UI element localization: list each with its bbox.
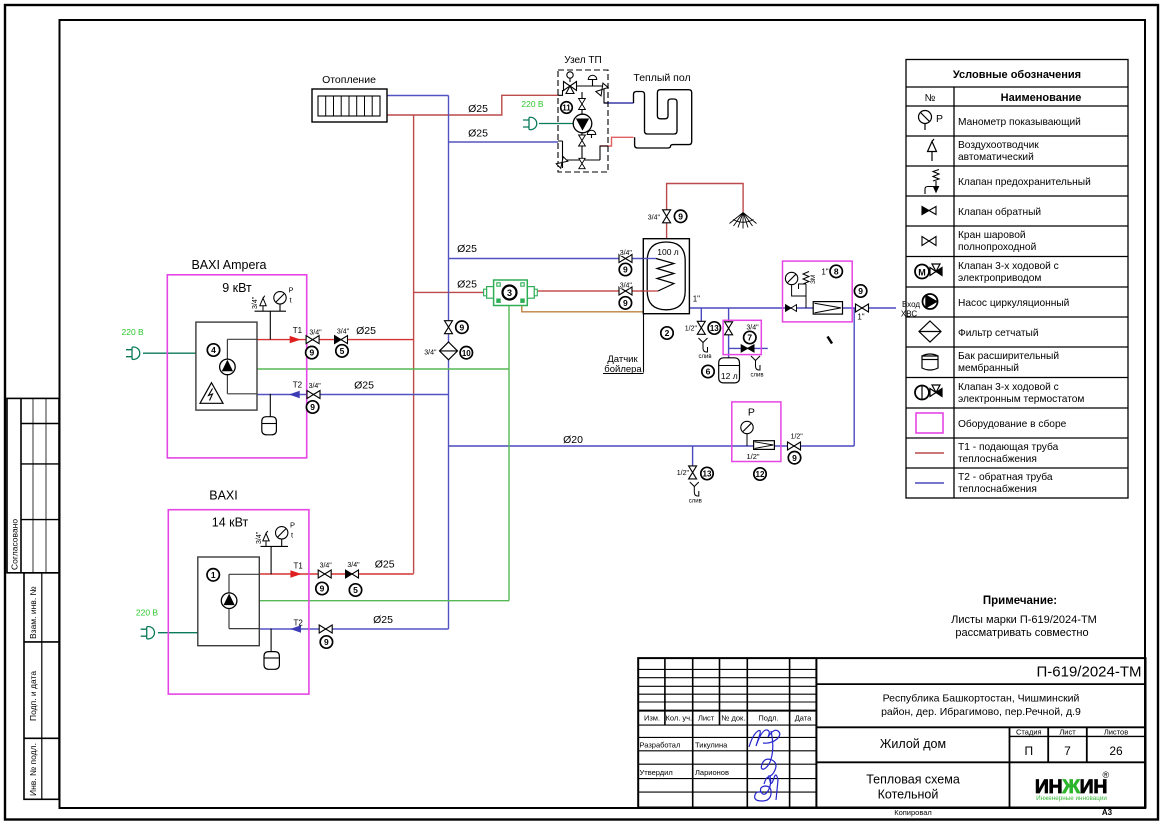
svg-text:слив: слив [698, 354, 711, 360]
svg-text:Стадия: Стадия [1016, 727, 1042, 736]
svg-text:Вход: Вход [902, 300, 920, 309]
svg-text:слив: слив [750, 372, 763, 378]
svg-text:1/2": 1/2" [685, 325, 698, 332]
title block grid [638, 658, 1145, 807]
stray tick mark [828, 337, 833, 344]
wire T2 main blue riser [448, 96, 450, 630]
circled 6 [702, 365, 714, 377]
svg-text:Условные обозначения: Условные обозначения [953, 69, 1081, 81]
svg-text:Ø25: Ø25 [356, 325, 376, 337]
svg-text:Насос циркуляционный: Насос циркуляционный [958, 298, 1069, 309]
wire blue drop to box7 [728, 308, 730, 358]
svg-text:район, дер. Ибрагимово, пер.Ре: район, дер. Ибрагимово, пер.Речной, д.9 [881, 706, 1081, 718]
separator circled 3 [503, 286, 517, 300]
drain symbol lower [690, 482, 699, 496]
svg-text:Фильтр сетчатый: Фильтр сетчатый [958, 328, 1039, 339]
svg-text:Бак расширительный: Бак расширительный [958, 351, 1059, 362]
svg-text:Р: Р [289, 286, 294, 295]
svg-text:Кол. уч.: Кол. уч. [665, 714, 692, 723]
valve on tank blue feed [619, 255, 632, 263]
wire T1 main red riser [413, 115, 415, 574]
expansion tank 12L [719, 358, 740, 383]
legend sym assembled equipment magenta square [916, 413, 943, 433]
svg-text:ЗМ: ЗМ [810, 275, 817, 284]
wire power boiler2 [158, 632, 198, 634]
boiler2 body [198, 557, 259, 646]
svg-text:2: 2 [665, 328, 670, 338]
svg-text:Взам. инв. №: Взам. инв. № [28, 586, 38, 639]
valve on blue riser [445, 321, 453, 334]
uzel air vent dome mid [587, 130, 596, 134]
svg-text:Наименование: Наименование [1001, 92, 1082, 104]
svg-text:Разработал: Разработал [640, 741, 681, 750]
wire red tank top to sprinkler [667, 184, 744, 239]
boiler2 internal loop [229, 574, 259, 628]
svg-text:Клапан предохранительный: Клапан предохранительный [958, 177, 1091, 188]
box12 pressure reducer [754, 441, 775, 450]
boiler1 circled 4 [207, 344, 219, 356]
boiler1 T2 arrow [289, 391, 300, 398]
svg-text:теплоснабжения: теплоснабжения [958, 483, 1037, 495]
legend table grid [906, 60, 1128, 499]
INZHIN logo [1035, 770, 1110, 802]
boiler1 plug [126, 347, 140, 359]
svg-text:Дата: Дата [795, 714, 812, 723]
svg-text:4: 4 [211, 345, 216, 355]
svg-text:26: 26 [1109, 744, 1123, 758]
svg-text:Лист: Лист [1059, 727, 1076, 736]
wire blue to uzel TP [449, 141, 559, 143]
uzel air vent dome top [588, 75, 597, 79]
boiler1 expansion tank [269, 394, 271, 417]
svg-text:Котельной: Котельной [878, 788, 939, 802]
svg-text:Утвердил: Утвердил [640, 768, 673, 777]
boiler2 T1 ball valve [318, 570, 331, 578]
svg-text:М: М [918, 268, 926, 278]
boiler2 T2 arrow [290, 625, 301, 632]
drain symbol right [751, 356, 760, 370]
svg-text:3/4": 3/4" [252, 296, 259, 309]
svg-text:10: 10 [462, 349, 471, 358]
svg-text:14 кВт: 14 кВт [212, 516, 249, 530]
svg-text:Тепловая схема: Тепловая схема [866, 773, 960, 787]
svg-text:12 л: 12 л [721, 371, 738, 381]
svg-text:Ø25: Ø25 [354, 379, 374, 391]
boiler2 T1 arrow [290, 570, 301, 577]
svg-text:бойлера: бойлера [604, 364, 642, 375]
svg-text:теплоснабжения: теплоснабжения [958, 453, 1037, 465]
box8 check valve [785, 305, 796, 312]
boiler2 expansion tank [270, 629, 272, 652]
side stamp upper table (Согласовано) [7, 398, 59, 572]
wire T1 boiler1 [257, 339, 414, 341]
boiler2 assembly magenta box [168, 510, 309, 694]
box7 valve vertical [725, 322, 733, 335]
svg-text:Ø25: Ø25 [373, 614, 393, 626]
boiler1 body [196, 322, 257, 410]
wire red separator feed [414, 291, 494, 293]
circled 12 [754, 468, 766, 480]
box12 manometer [741, 421, 753, 433]
svg-text:8: 8 [834, 267, 839, 277]
svg-text:Р: Р [290, 521, 295, 530]
stage headers [1016, 727, 1128, 736]
legend sym ball valve [922, 237, 936, 246]
svg-text:5: 5 [353, 585, 358, 595]
uzel valve lower [579, 135, 586, 146]
svg-text:Ø25: Ø25 [457, 243, 477, 255]
legend sym pump [923, 294, 938, 309]
svg-text:12: 12 [756, 470, 765, 479]
svg-text:Подл.: Подл. [758, 714, 778, 723]
svg-text:Теплый пол: Теплый пол [633, 72, 690, 84]
svg-text:3: 3 [507, 288, 512, 298]
svg-text:3/4": 3/4" [320, 563, 333, 570]
boiler2 T2 ball valve [319, 625, 332, 633]
wire T2 boiler1 [257, 394, 449, 396]
svg-text:5: 5 [340, 346, 345, 356]
drain symbol upper [699, 338, 708, 352]
right part lines [816, 683, 1145, 685]
wire green boiler2 [259, 600, 509, 602]
revision header labels [640, 714, 813, 778]
svg-text:3/4": 3/4" [256, 531, 263, 544]
svg-text:Лист: Лист [698, 714, 715, 723]
svg-text:3/4": 3/4" [337, 328, 350, 335]
svg-text:Р: Р [748, 407, 755, 419]
svg-text:11: 11 [562, 104, 571, 113]
svg-text:1": 1" [693, 294, 700, 303]
legend sym strainer [919, 321, 941, 342]
boiler2 pump [221, 593, 237, 609]
boiler1 T1 arrow [290, 336, 301, 343]
svg-text:мембранный: мембранный [958, 362, 1019, 374]
svg-text:Инв. № подл.: Инв. № подл. [28, 743, 38, 796]
boiler1 T1 ball valve [306, 336, 319, 344]
box8 safety valve [799, 272, 810, 297]
svg-text:электронным термостатом: электронным термостатом [958, 394, 1084, 405]
svg-text:Жилой дом: Жилой дом [880, 737, 946, 751]
wire blue HVS vertical [853, 308, 855, 446]
left revision table [638, 669, 816, 792]
svg-text:1": 1" [857, 313, 864, 322]
wire T2 boiler2 [259, 628, 448, 630]
wire orange separator to tank [522, 306, 644, 312]
svg-text:Кран шаровой: Кран шаровой [958, 230, 1026, 241]
svg-text:Согласовано: Согласовано [10, 519, 20, 570]
svg-text:№ док.: № док. [721, 714, 745, 723]
svg-text:1/2": 1/2" [791, 434, 804, 441]
boiler2 gauge assembly [261, 527, 289, 575]
valve 9 right of box12 [788, 442, 801, 450]
tank red stub inside [643, 290, 658, 292]
wire green boiler1 [257, 368, 509, 370]
svg-text:Отопление: Отопление [322, 74, 376, 86]
svg-text:Листы марки П-619/2024-ТМ: Листы марки П-619/2024-ТМ [951, 614, 1097, 626]
svg-text:Воздухоотводчик: Воздухоотводчик [958, 140, 1039, 151]
svg-text:9 кВт: 9 кВт [222, 281, 252, 295]
wire green separator drop [508, 306, 510, 601]
svg-text:Ларионов: Ларионов [695, 768, 729, 777]
svg-text:220 В: 220 В [521, 99, 544, 109]
svg-text:рассматривать совместно: рассматривать совместно [955, 627, 1088, 639]
boiler2 circled 1 [207, 569, 219, 581]
circled 10 [460, 347, 472, 359]
tank blue stub inside [643, 258, 656, 260]
tank circled 2 [661, 327, 673, 339]
legend sym T1 red line [915, 452, 944, 454]
boiler1 assembly magenta box [167, 275, 306, 458]
svg-text:Ø25: Ø25 [375, 558, 395, 570]
drain valve 13 upper [697, 321, 705, 334]
box8 pressure reducer [813, 302, 842, 315]
svg-text:Примечание:: Примечание: [983, 595, 1057, 607]
strainer filter [440, 342, 458, 360]
wire T2 radiator return blue [387, 95, 449, 97]
svg-text:Клапан обратный: Клапан обратный [958, 206, 1041, 218]
drain valve 13 lower [689, 466, 697, 479]
svg-text:Т2: Т2 [294, 618, 304, 627]
svg-text:220 В: 220 В [136, 607, 159, 617]
tank coil [656, 259, 674, 292]
valve 9 at HVS inlet [856, 304, 869, 312]
svg-text:®: ® [1103, 770, 1110, 780]
boiler1 gauge assembly [255, 292, 287, 340]
legend sym expansion tank [922, 354, 938, 370]
uzel bottom valve [579, 158, 585, 168]
svg-text:Клапан 3-х ходовой с: Клапан 3-х ходовой с [958, 261, 1059, 272]
box 7 assembly magenta [723, 320, 761, 354]
uzel circled 11 [561, 102, 573, 114]
boiler1 T2 ball valve [307, 391, 320, 399]
valve on tank top red [663, 210, 671, 223]
svg-text:1/2": 1/2" [677, 470, 690, 477]
svg-text:BAXI Ampera: BAXI Ampera [191, 258, 266, 272]
boiler1 hazard triangle [200, 383, 223, 404]
svg-text:1: 1 [211, 570, 216, 580]
legend sym 3-way motor valve [915, 264, 942, 279]
svg-text:3/4": 3/4" [648, 215, 661, 222]
uzel plug [523, 117, 537, 129]
wire red uzel return [600, 137, 634, 146]
svg-text:100 л: 100 л [657, 247, 679, 257]
svg-text:BAXI: BAXI [209, 489, 238, 503]
warm floor coil [634, 90, 692, 148]
radiator Otoplenie [312, 89, 387, 122]
svg-text:А3: А3 [1102, 808, 1113, 817]
svg-text:П: П [1024, 744, 1033, 758]
svg-text:Ø25: Ø25 [468, 103, 488, 115]
svg-text:Копировал: Копировал [894, 808, 932, 817]
wire blue drop to drain valve 13 [700, 308, 702, 334]
svg-text:7: 7 [747, 333, 752, 343]
svg-text:220 В: 220 В [121, 327, 144, 337]
svg-text:Р: Р [936, 113, 943, 125]
uzel pump [573, 114, 592, 133]
uzel TP dashed box [558, 70, 608, 172]
wire blue box7 branch [729, 347, 768, 349]
sprinkler outlet [730, 213, 757, 229]
svg-text:3/4": 3/4" [746, 324, 759, 331]
svg-text:электроприводом: электроприводом [958, 273, 1041, 284]
wire red tank coil inlet [527, 290, 658, 292]
svg-text:3/4": 3/4" [347, 562, 360, 569]
wire blue tank feed [449, 258, 656, 260]
svg-text:Т1 - подающая труба: Т1 - подающая труба [958, 441, 1059, 453]
svg-text:7: 7 [1064, 744, 1071, 758]
svg-text:6: 6 [706, 367, 711, 377]
legend sym 3-way thermostat valve [915, 385, 942, 400]
boiler1 pump [220, 359, 236, 375]
legend sym check valve [922, 207, 936, 215]
svg-text:Узел ТП: Узел ТП [564, 55, 601, 66]
boiler2 plug [141, 627, 155, 639]
box7 solenoid valve [741, 345, 754, 352]
side stamp lower table [24, 573, 59, 800]
svg-text:Ø25: Ø25 [457, 278, 477, 290]
svg-text:1": 1" [821, 267, 828, 276]
svg-text:слив: слив [689, 498, 702, 504]
svg-text:Оборудование в сборе: Оборудование в сборе [958, 418, 1067, 430]
uzel valve upper [579, 98, 586, 109]
uzel bottom angle valve [556, 157, 568, 169]
uzel balancing valve right [596, 83, 608, 96]
svg-text:Т1: Т1 [293, 326, 303, 335]
uzel 3-way motor valve [564, 82, 577, 94]
svg-text:полнопроходной: полнопроходной [958, 242, 1036, 253]
svg-text:1/2": 1/2" [746, 452, 759, 461]
svg-text:Т1: Т1 [294, 562, 304, 571]
svg-text:№: № [925, 93, 936, 104]
wire blue HVS from tank [689, 307, 896, 309]
wire blue drop to lower drain valve 13 [692, 446, 694, 478]
boiler sensor leader [643, 314, 645, 373]
svg-text:Т2 - обратная труба: Т2 - обратная труба [958, 471, 1053, 483]
svg-text:Ø20: Ø20 [563, 434, 583, 446]
wire blue O20 makeup line [449, 445, 855, 447]
hydraulic separator (green) [484, 280, 538, 306]
svg-text:Т2: Т2 [293, 381, 303, 390]
svg-text:Республика Башкортостан, Чишми: Республика Башкортостан, Чишминский [883, 693, 1080, 705]
boiler2 T1 check valve [346, 570, 359, 578]
svg-text:Инженерные инновации: Инженерные инновации [1036, 795, 1107, 802]
legend sym air vent [928, 139, 937, 161]
svg-text:П-619/2024-ТМ: П-619/2024-ТМ [1037, 664, 1142, 681]
svg-text:3/4": 3/4" [620, 250, 633, 257]
wire T1 radiator supply red [387, 95, 558, 115]
signature scribble [749, 730, 780, 801]
svg-text:Манометр показывающий: Манометр показывающий [958, 117, 1081, 128]
box7 circled 7 [744, 331, 756, 343]
svg-text:3/4": 3/4" [309, 383, 322, 390]
boiler1 internal loop [227, 339, 257, 394]
svg-text:Ø25: Ø25 [468, 128, 488, 140]
box8 manometer [785, 272, 797, 284]
svg-text:Листов: Листов [1104, 727, 1128, 736]
wire T1 boiler2 [259, 573, 413, 575]
svg-text:3/4": 3/4" [309, 329, 322, 336]
svg-text:Клапан 3-х ходовой с: Клапан 3-х ходовой с [958, 382, 1059, 393]
svg-text:Изм.: Изм. [644, 714, 660, 723]
uzel internal piping [558, 86, 608, 168]
wire power boiler1 [143, 352, 196, 354]
legend sym manometer [919, 111, 932, 131]
svg-text:3/4": 3/4" [424, 350, 437, 357]
svg-text:Подп. и дата: Подп. и дата [28, 671, 38, 721]
legend sym T2 blue line [915, 482, 944, 484]
svg-text:Тикулина: Тикулина [695, 741, 728, 750]
legend sym safety valve [925, 170, 939, 195]
wire blue serpentine supply [604, 102, 634, 104]
svg-text:автоматический: автоматический [958, 152, 1034, 163]
wire power uzel pump [539, 123, 573, 125]
boiler1 T1 check valve [335, 336, 348, 344]
svg-text:3/4": 3/4" [620, 283, 633, 290]
valve on tank red coil line [619, 287, 632, 295]
